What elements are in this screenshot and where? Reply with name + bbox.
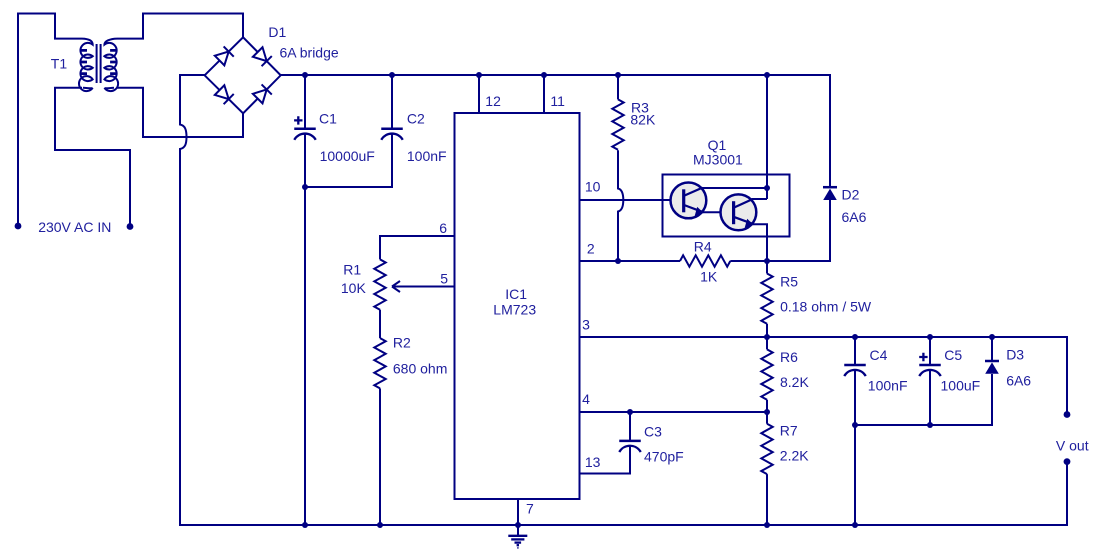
node pin12 top — [476, 72, 482, 78]
node C5 top — [927, 334, 933, 340]
svg-text:C1: C1 — [319, 111, 337, 127]
node R4 R5 D2 — [764, 258, 770, 264]
wire Q1 emitter1 to base2 — [703, 211, 734, 213]
svg-text:82K: 82K — [630, 111, 656, 127]
node R6 R7 pin4 — [764, 409, 770, 415]
wire rail drop into Q1 collectors — [766, 75, 768, 199]
wire pin 10 to Q1 base — [580, 199, 685, 201]
wire D2 cathode drop to R4 R5 junction — [768, 200, 831, 262]
svg-text:MJ3001: MJ3001 — [693, 152, 743, 168]
wire pin 11 stub — [543, 75, 545, 113]
node R5 R6 pin3 — [764, 334, 770, 340]
resistor R4 zigzag horizontal — [680, 255, 730, 266]
svg-text:D1: D1 — [268, 24, 286, 40]
node C4 top — [852, 334, 858, 340]
svg-text:680 ohm: 680 ohm — [393, 361, 447, 377]
wire R3 bottom lead with hop over pin 10 wire, to pin 2 net — [618, 150, 623, 261]
wire pin 12 stub — [478, 75, 480, 113]
wire R3 top lead from rail — [617, 75, 619, 99]
svg-text:R4: R4 — [694, 239, 712, 255]
terminal AC right — [127, 223, 134, 230]
wire pin 2 to R4 left lead — [580, 260, 681, 262]
svg-text:13: 13 — [585, 454, 601, 470]
svg-text:R6: R6 — [780, 349, 798, 365]
resistor R5 zigzag — [761, 274, 772, 324]
svg-text:R2: R2 — [393, 335, 411, 351]
node D3 top — [989, 334, 995, 340]
svg-text:6A6: 6A6 — [1006, 373, 1031, 389]
node pin11 top — [541, 72, 547, 78]
ground symbol — [508, 536, 527, 545]
terminal V out upper — [1064, 411, 1071, 418]
node Q1 collector join — [764, 185, 770, 191]
node C5 bottom — [927, 422, 933, 428]
wire pin 5 to R1 wiper arrow — [394, 286, 455, 288]
wire C4 bottom lead down to bottom rail — [854, 370, 856, 525]
wire R7 leads — [766, 412, 768, 525]
svg-text:10K: 10K — [341, 280, 367, 296]
potentiometer R1 wiper arrow — [392, 281, 400, 292]
wire pin 6 to R1 top — [380, 236, 455, 259]
IC1 LM723 box — [455, 113, 580, 499]
node C1 top — [302, 72, 308, 78]
svg-text:1K: 1K — [700, 269, 718, 285]
svg-text:R5: R5 — [780, 274, 798, 290]
transistor Q1b — [721, 194, 757, 230]
capacitor C1 plates — [294, 129, 316, 140]
svg-text:100uF: 100uF — [941, 378, 981, 394]
svg-text:2.2K: 2.2K — [780, 448, 809, 464]
wire transformer secondary bottom to bridge bottom corner — [117, 88, 243, 137]
svg-text:4: 4 — [582, 391, 590, 407]
svg-text:470pF: 470pF — [644, 449, 684, 465]
node C3 pin4 — [627, 409, 633, 415]
wire C5 top lead — [929, 337, 931, 365]
wire pin 3 net to V out upper terminal — [580, 337, 1068, 413]
svg-text:V out: V out — [1056, 437, 1089, 453]
svg-text:5: 5 — [440, 270, 448, 286]
node rail C1 — [302, 522, 308, 528]
svg-text:100nF: 100nF — [868, 378, 908, 394]
svg-text:230V AC IN: 230V AC IN — [38, 219, 111, 235]
bridge diode top-right — [253, 47, 272, 66]
wire R4 right lead to D2 branch — [730, 260, 830, 262]
svg-text:C2: C2 — [407, 111, 425, 127]
Q1 MJ3001 box — [663, 175, 790, 237]
bridge rectifier D1 diamond edges — [205, 37, 281, 113]
wire R6 leads — [766, 337, 768, 412]
svg-text:D2: D2 — [842, 186, 860, 202]
bridge diode top-left — [215, 46, 234, 65]
wire C3 top lead — [629, 412, 631, 441]
wire C1 bottom lead down to bottom rail — [304, 134, 306, 525]
capacitor C4 plates — [844, 365, 866, 376]
bridge diode bottom-right — [253, 84, 272, 103]
svg-text:10000uF: 10000uF — [320, 148, 375, 164]
resistor R6 zigzag — [761, 349, 772, 399]
ground symbol dot — [517, 547, 518, 548]
terminal V out lower — [1064, 458, 1071, 465]
transformer T1 primary winding — [79, 39, 93, 92]
svg-text:12: 12 — [485, 93, 501, 109]
node rail R2 — [377, 522, 383, 528]
capacitor C3 plates — [619, 441, 641, 452]
transistor Q1a — [671, 183, 707, 219]
diode D2 — [823, 187, 837, 200]
svg-text:6A bridge: 6A bridge — [280, 44, 339, 60]
capacitor C5 plus sign — [919, 353, 927, 361]
wire bridge left corner to ground rail with hop, bottom rail to V out lower terminal — [180, 75, 1067, 525]
node C4 bottom — [852, 422, 858, 428]
svg-text:C4: C4 — [870, 347, 888, 363]
wire Q1 internal collector of first transistor — [702, 187, 768, 189]
svg-text:C3: C3 — [644, 424, 662, 440]
wire Q1 internal collector of second transistor — [752, 198, 768, 200]
svg-text:100nF: 100nF — [407, 148, 447, 164]
svg-text:0.18 ohm / 5W: 0.18 ohm / 5W — [780, 298, 872, 314]
node rail C4 — [852, 522, 858, 528]
wire R2 bottom to bottom rail — [379, 388, 381, 525]
wire pin 7 to ground — [517, 499, 519, 536]
wire C1 top lead — [304, 75, 306, 129]
wire C5 bottom lead — [929, 370, 931, 425]
svg-text:R7: R7 — [780, 423, 798, 439]
node C2 top — [389, 72, 395, 78]
wire R1 bottom to R2 top — [379, 310, 381, 338]
svg-text:3: 3 — [582, 317, 590, 333]
wire D3 top lead — [991, 337, 993, 360]
svg-text:C5: C5 — [944, 347, 962, 363]
resistor R1 zigzag — [374, 259, 385, 309]
wire R5 leads — [766, 261, 768, 337]
svg-text:LM723: LM723 — [493, 302, 536, 318]
wire Q1 emitter2 down to R4 R5 junction — [753, 224, 768, 261]
svg-text:Q1: Q1 — [708, 137, 727, 153]
bridge diode bottom-left — [215, 85, 234, 104]
capacitor C2 plates — [381, 129, 403, 140]
wire AC input left leg to transformer primary top — [18, 14, 82, 225]
diode D3 — [985, 361, 999, 374]
svg-text:IC1: IC1 — [505, 286, 527, 302]
svg-text:T1: T1 — [51, 56, 68, 72]
capacitor C1 plus sign — [294, 116, 302, 124]
node R3 top — [615, 72, 621, 78]
wire C2 top lead — [391, 75, 393, 129]
capacitor C5 plates — [919, 365, 941, 376]
resistor R7 zigzag — [761, 424, 772, 474]
svg-text:D3: D3 — [1006, 347, 1024, 363]
wire C2 bottom lead to C1 junction — [305, 134, 392, 187]
terminal AC left — [15, 223, 22, 230]
wire D3 bottom lead and return to C4 branch — [855, 374, 992, 425]
transformer T1 secondary winding — [104, 39, 118, 92]
wire C3 bottom lead to pin 13 — [580, 446, 631, 474]
svg-text:6A6: 6A6 — [842, 209, 867, 225]
node rail pin7 — [515, 522, 521, 528]
node rail R7 — [764, 522, 770, 528]
resistor R3 zigzag — [612, 99, 623, 149]
wire C4 top lead — [854, 337, 856, 365]
svg-text:R1: R1 — [343, 261, 361, 277]
svg-text:2: 2 — [587, 241, 595, 257]
transformer T1 core lines — [97, 44, 101, 83]
svg-text:6: 6 — [439, 220, 447, 236]
node R3 pin2 — [615, 258, 621, 264]
wire transformer primary bottom to AC input right leg — [55, 88, 130, 224]
svg-text:11: 11 — [550, 93, 565, 109]
node C1 C2 bottom — [302, 184, 308, 190]
wire pin 4 net — [580, 411, 768, 413]
resistor R2 zigzag — [374, 338, 385, 388]
svg-text:7: 7 — [526, 501, 534, 517]
wire top positive rail from bridge right corner to D2 drop — [281, 75, 830, 186]
svg-text:8.2K: 8.2K — [780, 374, 809, 390]
node Q1 collector rail — [764, 72, 770, 78]
svg-text:10: 10 — [585, 178, 601, 194]
wire transformer secondary top to bridge top corner — [117, 14, 243, 39]
